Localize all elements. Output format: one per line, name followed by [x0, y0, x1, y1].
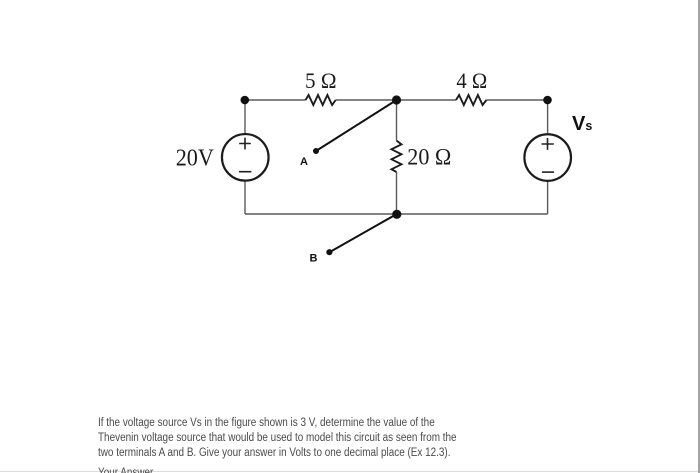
svg-text:B: B	[310, 253, 318, 265]
svg-text:20V: 20V	[176, 146, 215, 172]
svg-text:A: A	[300, 156, 308, 168]
svg-text:4 Ω: 4 Ω	[456, 68, 487, 93]
svg-text:Vs: Vs	[572, 113, 592, 135]
svg-text:5 Ω: 5 Ω	[305, 68, 337, 93]
svg-text:20 Ω: 20 Ω	[407, 144, 451, 169]
